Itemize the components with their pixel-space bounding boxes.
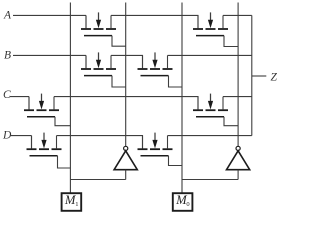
wire vertical rail R4 (inverter G2 output net, x=238): [237, 3, 239, 147]
inverter G1 (output to R2, bubble up): [114, 146, 137, 179]
wire G2 input from R3: [182, 179, 238, 181]
transistor T4 (row B right): [138, 52, 183, 87]
wire row B mid (T3 source to T4 drain): [111, 55, 143, 68]
wire input D: [11, 135, 32, 137]
node B label: [4, 50, 11, 62]
wire input B: [13, 54, 86, 56]
wire D drain corner: [31, 136, 33, 149]
wire B drain corner: [85, 55, 87, 68]
wire output bus vertical (x=252): [251, 15, 253, 135]
transistor T6 (row C right): [193, 94, 238, 126]
node C label: [3, 89, 11, 101]
wire G1 input from R1: [70, 179, 125, 181]
wire row C to output bus: [223, 96, 252, 98]
memory cell M0: [173, 193, 193, 211]
svg-text:0: 0: [186, 201, 189, 208]
node Z label: [271, 72, 278, 84]
wire row B to output bus: [168, 54, 252, 56]
wire output Z: [252, 75, 266, 77]
wire input C: [10, 96, 29, 98]
svg-text:C: C: [3, 89, 11, 101]
wire A drain corner: [85, 15, 87, 28]
transistor T3 (row B left): [81, 52, 126, 87]
node D label: [2, 130, 12, 142]
svg-text:Z: Z: [271, 72, 278, 84]
wire row C mid (T5 source to T6 drain): [54, 97, 198, 110]
wire vertical rail R3 (M0 net, x=182): [181, 3, 183, 193]
transistor T2 (row A right): [193, 12, 238, 46]
wire row A to output bus: [223, 14, 252, 16]
transistor T5 (row C left): [24, 94, 70, 126]
transistor T8 (row D right): [138, 133, 183, 166]
memory cell M1: [62, 193, 82, 211]
svg-text:M: M: [175, 193, 187, 207]
transistor T7 (row D left): [27, 133, 71, 168]
wire row A mid (T1 source to T2 drain): [111, 15, 198, 28]
svg-text:B: B: [4, 50, 11, 62]
transistor T1 (row A left): [81, 12, 126, 46]
wire input A: [13, 14, 86, 16]
wire vertical rail R2 (inverter G1 output net, x=126): [125, 3, 127, 147]
svg-text:1: 1: [75, 201, 78, 208]
svg-text:M: M: [64, 193, 76, 207]
wire row D mid (T7 source to T8 drain): [57, 136, 143, 149]
node A label: [3, 10, 12, 22]
wire row D to output bus: [168, 135, 252, 137]
svg-text:D: D: [2, 130, 12, 142]
wire vertical rail R1 (M1 net, x=70): [69, 3, 71, 193]
wire C drain corner: [28, 97, 30, 110]
inverter G2 (output to R4, bubble up): [227, 146, 250, 179]
svg-text:A: A: [3, 10, 12, 22]
